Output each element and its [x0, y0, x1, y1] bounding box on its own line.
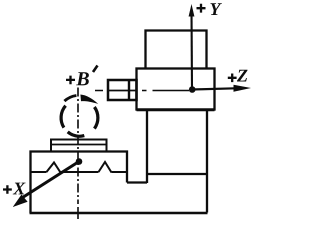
V-way right — [99, 162, 112, 173]
Y axis line — [190, 12, 193, 90]
B axis centre line — [77, 88, 79, 205]
V-way left — [47, 163, 61, 173]
label +Z — [228, 70, 248, 82]
label +B and prime — [66, 66, 98, 86]
saddle top line with V-ways — [31, 171, 128, 173]
rotary platform — [51, 140, 107, 152]
Z axis line — [192, 88, 240, 89]
X arrowhead — [13, 195, 28, 208]
B rotation dashed circle bottom arc — [68, 132, 85, 136]
spindle mid line — [108, 90, 137, 92]
spindle centre line — [95, 90, 189, 92]
node dot table origin — [76, 158, 83, 165]
Y arrowhead — [189, 4, 195, 17]
headstock bottom edge emphasis — [137, 108, 215, 111]
spindle divider — [128, 80, 130, 100]
table block — [31, 152, 128, 214]
node dot spindle origin — [189, 86, 196, 93]
label +X — [3, 183, 26, 195]
bed step between saddle and column — [127, 181, 147, 183]
spindle — [108, 80, 137, 100]
B rotation arrow tail arc — [64, 96, 76, 102]
B rotation dashed circle right arc — [94, 107, 98, 129]
base bottom — [30, 212, 208, 215]
top block (column top) — [146, 31, 207, 69]
label +Y — [197, 3, 222, 15]
column right edge — [206, 110, 208, 213]
X axis line — [21, 162, 79, 199]
Z arrowhead — [234, 85, 252, 92]
headstock (spindle housing) — [137, 69, 215, 110]
B rotation arrowhead — [80, 95, 98, 104]
rotary platform inner line — [51, 144, 107, 146]
column left edge — [146, 110, 148, 184]
B axis centre line lower dash — [77, 207, 79, 219]
B rotation dashed circle left arc — [61, 106, 66, 128]
base top line — [147, 173, 207, 175]
